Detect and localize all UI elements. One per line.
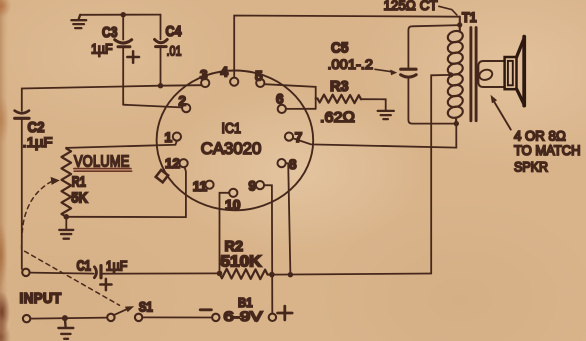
junction dot node A (C4 bottom on main line): [158, 83, 163, 88]
op-amp IC1 CA3020 body: [157, 70, 314, 210]
svg-text:IC1: IC1: [222, 121, 242, 137]
svg-text:B1: B1: [238, 295, 253, 310]
junction dot R2 left: [217, 271, 223, 277]
wire pin 12 down to R1 bottom: [66, 167, 186, 217]
capacitor C2: [15, 111, 29, 269]
battery plus sign: [278, 306, 293, 320]
transformer T1 core: [471, 28, 476, 121]
svg-text:1µF: 1µF: [106, 258, 128, 273]
battery minus sign: [200, 308, 211, 311]
junction dot R2 right: [269, 272, 275, 278]
svg-text:SPKR: SPKR: [514, 160, 548, 175]
capacitor C3: [115, 15, 132, 105]
svg-text:12: 12: [165, 156, 180, 171]
svg-text:8: 8: [289, 157, 297, 172]
svg-text:4 OR 8Ω: 4 OR 8Ω: [514, 129, 566, 144]
svg-text:510K: 510K: [221, 254, 263, 271]
pin 9: [256, 181, 264, 189]
speaker frame: [505, 37, 525, 106]
wire center tap down to bottom rail: [431, 75, 451, 274]
capacitor C1: [94, 266, 101, 278]
svg-text:3: 3: [200, 68, 208, 83]
svg-text:CA3020: CA3020: [201, 139, 261, 158]
wire bottom-left to switch: [30, 318, 107, 319]
svg-text:S1: S1: [139, 300, 153, 315]
wire pin 2 to C3 bottom: [123, 105, 181, 108]
pin 1: [173, 133, 181, 141]
svg-text:5K: 5K: [71, 189, 88, 206]
IC1 index tab: [156, 170, 168, 182]
pin 2: [182, 104, 190, 112]
svg-text:4: 4: [221, 65, 229, 80]
svg-text:C5: C5: [331, 40, 349, 57]
wire pin 4 riser to transformer top: [234, 16, 460, 78]
wire pin 5 to R3 node: [264, 84, 315, 109]
switch S1 lever: [114, 309, 127, 315]
wire main line C2 corner to pin 3: [22, 85, 202, 111]
ground G3 (bottom rail): [58, 318, 73, 339]
transformer T1 secondary winding: [478, 61, 504, 87]
input jack top terminal: [22, 269, 29, 276]
junction dot pin8 rail: [288, 272, 293, 277]
wire pin 10 down to R2 left: [220, 193, 230, 274]
pin 5: [256, 79, 264, 87]
capacitor C5 branch box: [401, 25, 460, 124]
svg-text:7: 7: [295, 130, 303, 145]
wire bottom rail to center tap riser: [272, 274, 431, 275]
svg-text:R3: R3: [330, 78, 349, 95]
svg-text:T1: T1: [462, 9, 477, 25]
ground G1 top-left: [71, 15, 86, 28]
svg-text:TO MATCH: TO MATCH: [514, 143, 581, 158]
transformer T1 primary winding: [447, 17, 464, 124]
switch S1 contact: [135, 314, 142, 321]
svg-text:5: 5: [255, 69, 263, 84]
svg-text:11: 11: [193, 179, 208, 194]
C1 polarity plus: [100, 279, 111, 290]
wire R1 bottom to ground: [65, 217, 67, 230]
pin 8: [278, 159, 286, 167]
svg-text:10: 10: [225, 198, 241, 213]
wire R3 to ground: [361, 99, 386, 110]
resistor R2: [220, 269, 272, 279]
battery B1 minus terminal: [212, 314, 219, 321]
svg-text:C3: C3: [102, 24, 118, 41]
capacitor C4: [155, 15, 168, 86]
resistor R1: [62, 148, 72, 217]
junction dot R1 bottom: [64, 214, 70, 220]
speaker arrow: [494, 102, 510, 130]
wire C1 to R2 left: [103, 272, 220, 274]
svg-text:9: 9: [249, 178, 257, 193]
junction dot C5 top at transformer: [457, 22, 462, 27]
svg-text:R2: R2: [225, 238, 244, 255]
C3 polarity plus: [127, 51, 139, 63]
wire switch to battery minus: [142, 316, 212, 318]
pin 10: [229, 189, 237, 197]
svg-text:2: 2: [179, 94, 187, 109]
pin 7: [285, 133, 293, 141]
wire input to C1: [30, 273, 94, 274]
speaker horn: [517, 38, 525, 57]
dashed mechanical link R1 to S1: [22, 182, 120, 306]
pin 4: [230, 78, 238, 86]
svg-text:1: 1: [165, 130, 173, 145]
junction dot center tap: [448, 72, 453, 77]
junction dot transformer primary bottom: [454, 121, 459, 126]
wire pin 1 to R1 top: [66, 141, 177, 148]
svg-text:6-9V: 6-9V: [224, 309, 263, 324]
wire pin 8 down to bottom rail: [286, 163, 291, 275]
svg-text:INPUT: INPUT: [20, 290, 62, 307]
wire pin 7 to transformer bottom: [293, 124, 456, 148]
svg-text:.01: .01: [167, 43, 182, 59]
svg-text:125Ω CT: 125Ω CT: [384, 0, 438, 13]
pin 3: [201, 79, 209, 87]
wire pin 6 to R3 node: [286, 108, 316, 110]
junction dot bottom ground: [62, 315, 68, 321]
R1 wiper arrow: [51, 177, 60, 185]
svg-text:.1µF: .1µF: [23, 134, 53, 150]
svg-text:6: 6: [276, 92, 284, 107]
switch S1 pivot: [107, 314, 114, 321]
svg-text:.62Ω: .62Ω: [320, 109, 355, 126]
ground G2 (R1): [59, 230, 73, 239]
ground G4 (R3): [378, 111, 394, 119]
battery B1 plus terminal: [269, 314, 276, 321]
svg-text:.001-.2: .001-.2: [328, 56, 374, 72]
pin 12: [180, 159, 188, 167]
pin 11: [205, 181, 213, 189]
svg-text:R1: R1: [72, 174, 86, 190]
pin 6: [278, 105, 286, 113]
resistor R3: [316, 95, 361, 104]
C5 pointer arrow: [375, 69, 392, 71]
svg-text:C4: C4: [166, 23, 183, 40]
svg-text:C1: C1: [77, 258, 92, 274]
wire pin 9 down to battery plus: [264, 185, 272, 313]
input jack bottom terminal: [23, 315, 30, 322]
wire top-left (ground to C4 top): [81, 14, 161, 16]
CT pointer: [439, 6, 457, 15]
junction dot node C3 top: [121, 12, 126, 17]
svg-text:1µF: 1µF: [91, 41, 113, 57]
